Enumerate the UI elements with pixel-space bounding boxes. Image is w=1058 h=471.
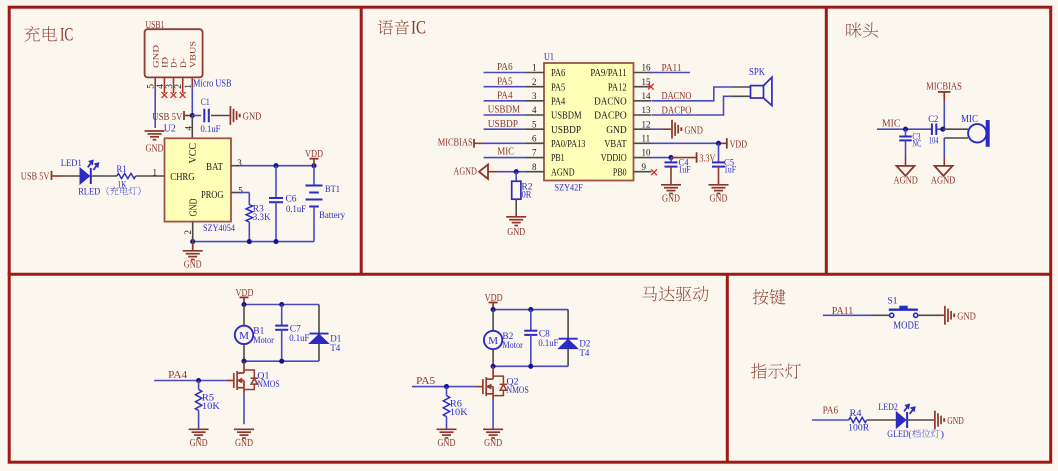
svg-text:PA0/PA13: PA0/PA13 [551, 139, 585, 150]
svg-text:8: 8 [532, 162, 537, 172]
svg-text:USB 5V: USB 5V [152, 112, 182, 123]
svg-text:10K: 10K [450, 408, 468, 418]
svg-text:1uF: 1uF [679, 164, 691, 174]
svg-text:GND: GND [947, 416, 964, 427]
svg-text:DACNO: DACNO [594, 97, 627, 108]
svg-text:GND: GND [146, 144, 164, 155]
svg-text:D-: D- [178, 58, 188, 68]
svg-text:Motor: Motor [253, 336, 274, 346]
svg-text:USBDP: USBDP [488, 119, 518, 130]
svg-text:GND: GND [507, 227, 525, 238]
svg-text:PA4: PA4 [551, 97, 565, 108]
svg-text:13: 13 [642, 105, 652, 115]
svg-text:PA5: PA5 [551, 82, 565, 93]
svg-text:GND: GND [190, 438, 208, 449]
svg-text:PA6: PA6 [497, 62, 513, 73]
svg-text:AGND: AGND [894, 176, 919, 187]
svg-text:5: 5 [532, 119, 537, 129]
svg-text:Battery: Battery [319, 211, 345, 221]
svg-text:PA5: PA5 [416, 376, 435, 387]
svg-text:1K: 1K [118, 181, 127, 191]
svg-text:GND: GND [710, 194, 728, 205]
svg-text:5: 5 [238, 185, 243, 195]
svg-text:): ) [941, 429, 945, 440]
svg-text:C8: C8 [539, 330, 550, 340]
svg-text:VBUS: VBUS [188, 41, 198, 68]
svg-text:1uF: 1uF [724, 164, 736, 174]
svg-text:T4: T4 [330, 344, 340, 354]
svg-text:PA6: PA6 [551, 68, 565, 79]
svg-text:C7: C7 [290, 325, 301, 335]
svg-text:PA4: PA4 [497, 91, 513, 102]
svg-text:DACPO: DACPO [594, 111, 627, 122]
svg-text:MICBIAS: MICBIAS [438, 138, 473, 149]
svg-text:4: 4 [183, 126, 193, 131]
svg-text:GND: GND [484, 438, 502, 449]
svg-text:104: 104 [929, 135, 939, 145]
svg-text:16: 16 [642, 63, 652, 73]
svg-text:U1: U1 [544, 52, 554, 63]
svg-text:NMOS: NMOS [257, 380, 279, 390]
svg-text:14: 14 [642, 91, 652, 101]
svg-text:BAT: BAT [206, 162, 223, 173]
svg-text:9: 9 [642, 162, 647, 172]
svg-text:AGND: AGND [454, 167, 478, 178]
svg-text:GND: GND [662, 194, 680, 205]
svg-text:GND: GND [235, 438, 253, 449]
svg-text:M: M [239, 330, 249, 342]
svg-text:M: M [488, 335, 498, 347]
svg-text:USBDP: USBDP [551, 125, 581, 136]
svg-text:VDD: VDD [730, 139, 748, 150]
svg-text:GND: GND [184, 260, 202, 271]
svg-text:GND: GND [684, 125, 703, 136]
svg-text:CHRG: CHRG [170, 172, 195, 183]
svg-text:11: 11 [642, 134, 651, 144]
svg-text:4: 4 [532, 105, 537, 115]
svg-text:GND: GND [189, 198, 200, 216]
svg-text:PB0: PB0 [613, 167, 627, 178]
svg-text:10K: 10K [202, 402, 220, 412]
svg-text:0R: 0R [522, 191, 533, 201]
svg-text:LED1: LED1 [61, 159, 82, 169]
svg-text:1: 1 [153, 167, 158, 177]
svg-text:T4: T4 [579, 349, 589, 359]
svg-text:MIC: MIC [882, 118, 900, 129]
svg-text:VBAT: VBAT [604, 139, 627, 150]
svg-text:3.3K: 3.3K [253, 213, 271, 223]
svg-text:PA9/PA11: PA9/PA11 [590, 68, 626, 79]
svg-text:IC: IC [60, 25, 73, 45]
svg-text:GLED(: GLED( [887, 429, 911, 440]
svg-text:1: 1 [532, 63, 537, 73]
svg-text:0.1uF: 0.1uF [289, 334, 309, 344]
svg-text:IC: IC [411, 19, 426, 39]
svg-text:USB 5V: USB 5V [21, 171, 50, 182]
svg-text:2: 2 [532, 77, 537, 87]
svg-text:AGND: AGND [931, 176, 956, 187]
svg-text:PA5: PA5 [497, 76, 513, 87]
svg-text:GND: GND [606, 125, 627, 136]
svg-text:GND: GND [957, 312, 976, 323]
svg-text:GND: GND [243, 112, 262, 123]
svg-text:Motor: Motor [502, 341, 523, 351]
svg-text:LED2: LED2 [878, 403, 898, 413]
svg-text:NMOS: NMOS [507, 386, 529, 396]
svg-text:C6: C6 [286, 195, 297, 205]
svg-text:Micro USB: Micro USB [193, 79, 232, 90]
svg-text:3: 3 [532, 91, 537, 101]
svg-text:MIC: MIC [497, 146, 514, 157]
svg-text:SZY42F: SZY42F [555, 183, 583, 193]
svg-text:VDD: VDD [305, 149, 323, 160]
svg-text:6: 6 [532, 134, 537, 144]
svg-text:0.1uF: 0.1uF [201, 125, 221, 135]
svg-text:7: 7 [532, 148, 537, 158]
svg-text:MODE: MODE [893, 321, 919, 332]
svg-text:0.1uF: 0.1uF [286, 205, 306, 215]
svg-text:C1: C1 [201, 98, 210, 108]
svg-text:0.1uF: 0.1uF [538, 339, 558, 349]
svg-text:C2: C2 [928, 114, 938, 124]
svg-text:10: 10 [642, 148, 652, 158]
svg-text:SZY4054: SZY4054 [203, 224, 235, 234]
svg-text:PA4: PA4 [168, 370, 188, 381]
svg-text:VCC: VCC [188, 143, 199, 164]
svg-text:USBDM: USBDM [551, 111, 582, 122]
svg-text:PA12: PA12 [608, 82, 627, 93]
svg-text:12: 12 [642, 119, 651, 129]
svg-text:U2: U2 [164, 123, 176, 134]
svg-text:NC: NC [912, 138, 921, 148]
svg-text:100R: 100R [848, 424, 870, 434]
svg-text:2: 2 [183, 230, 193, 235]
svg-text:USBDM: USBDM [488, 105, 521, 116]
svg-text:SPK: SPK [749, 67, 765, 78]
svg-text:PROG: PROG [201, 190, 224, 201]
svg-text:GND: GND [438, 438, 456, 449]
svg-text:S1: S1 [888, 297, 898, 307]
svg-text:RLED: RLED [78, 187, 100, 197]
svg-text:PA6: PA6 [823, 405, 839, 416]
svg-text:AGND: AGND [551, 167, 575, 178]
svg-text:BT1: BT1 [325, 185, 340, 195]
svg-text:PB1: PB1 [551, 153, 565, 164]
svg-text:VDDIO: VDDIO [601, 153, 627, 164]
